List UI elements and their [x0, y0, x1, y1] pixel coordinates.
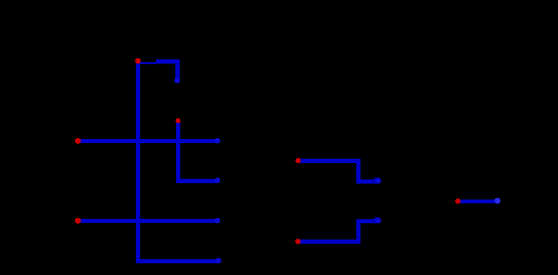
node F (unconnected end dot, left of R2) [295, 239, 300, 244]
wire W2 (top hook to pin stub) [156, 61, 178, 80]
wire W2 bottom end cap [174, 78, 180, 84]
node E (unconnected end dot, left of R1) [295, 158, 300, 163]
wire H2 right end cap [215, 218, 221, 224]
wire R1 end cap [376, 178, 381, 183]
node A (unconnected end dot, top) [135, 58, 141, 64]
node D (unconnected end dot, left of H2) [75, 218, 81, 224]
wire W1 right end cap [216, 258, 222, 264]
wire W3 (vertical stub through H1 to lower run) [178, 121, 216, 181]
wire H2 (long horizontal, row 2) [78, 219, 216, 223]
wire R1 pin-step notch [375, 178, 380, 180]
wire R1 (right side, upper zigzag) [298, 161, 378, 182]
wire W2 thin segment from node A [139, 62, 157, 64]
wire R2 (right side, lower zigzag) [298, 221, 378, 241]
wire R2 pin-step notch [374, 217, 379, 219]
wire W3 right end cap [215, 178, 221, 184]
net trunk wire W1 (vertical bus with bottom run) [138, 61, 218, 261]
node B (unconnected end dot, left of H1) [75, 138, 81, 144]
wire H1 right end cap [215, 138, 221, 144]
wire R3 right bendpoint cap [495, 198, 501, 204]
wire R2 end cap [376, 218, 381, 223]
node C (unconnected end dot, top of W3) [176, 118, 181, 123]
wire H1 (long horizontal, row 1) [78, 139, 216, 143]
wire R3 (far right horizontal) [459, 199, 496, 203]
node G (unconnected end dot, left of R3) [455, 198, 460, 203]
